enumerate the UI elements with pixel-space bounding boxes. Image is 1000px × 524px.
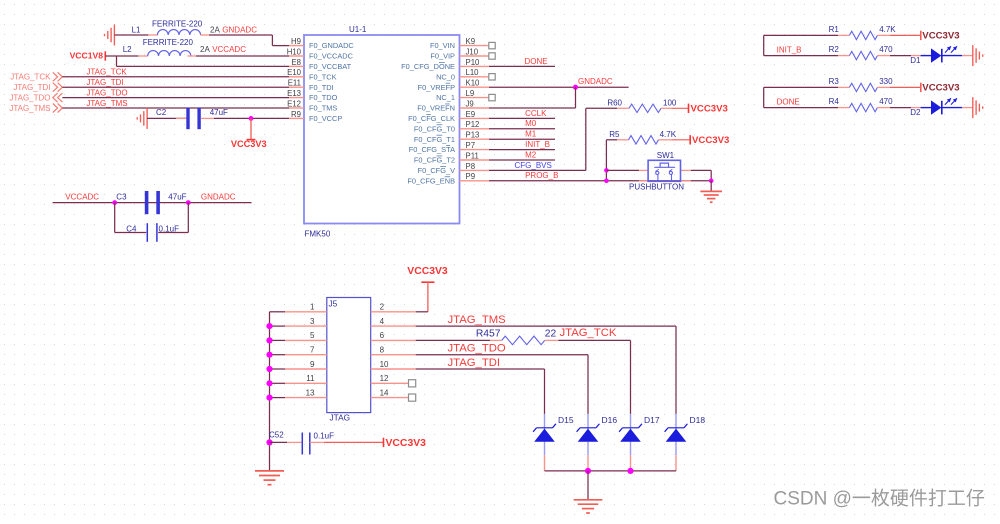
svg-text:JTAG_TDO: JTAG_TDO bbox=[86, 88, 127, 97]
svg-text:4: 4 bbox=[380, 317, 385, 326]
net label VCCADC (L2) bbox=[212, 45, 246, 54]
power port VCC3V3 (R5) bbox=[690, 135, 729, 146]
wire L1 to H9 bbox=[200, 35, 289, 46]
svg-text:DONE: DONE bbox=[525, 57, 548, 66]
svg-text:F0_GNDADC: F0_GNDADC bbox=[309, 41, 354, 50]
wire D1 to ground bbox=[962, 55, 972, 57]
wire VCC1V8 to L2 bbox=[105, 55, 148, 57]
svg-text:P12: P12 bbox=[466, 120, 480, 129]
net label DONE bbox=[525, 57, 548, 66]
ground analog (left of L1) bbox=[105, 25, 115, 46]
wire JTAG_TDI (pin10) bbox=[416, 369, 545, 414]
U1 pin P11 F0_CFG_T2 bbox=[414, 151, 489, 164]
svg-text:C52: C52 bbox=[269, 430, 284, 439]
J5 pin 7 bbox=[285, 346, 327, 355]
svg-text:U1-1: U1-1 bbox=[349, 25, 367, 34]
svg-text:4.7K: 4.7K bbox=[660, 130, 677, 139]
svg-text:4.7K: 4.7K bbox=[879, 25, 896, 34]
net label VCCADC bbox=[65, 193, 99, 202]
U1 pin P12 F0_CFG_T0 bbox=[414, 120, 489, 133]
svg-text:L2: L2 bbox=[123, 45, 132, 54]
svg-text:R60: R60 bbox=[607, 99, 622, 108]
capacitor C2 bbox=[156, 108, 228, 130]
svg-text:FMK50: FMK50 bbox=[305, 230, 331, 239]
svg-text:E12: E12 bbox=[287, 99, 301, 108]
U1 pin E9 F0_CFG_CLK bbox=[408, 110, 489, 123]
node D17 junction bbox=[627, 468, 633, 474]
wire JTAG_TDO (pin8) bbox=[416, 355, 588, 414]
svg-text:F0_VIN: F0_VIN bbox=[430, 41, 455, 50]
wire SW1 top right bbox=[681, 170, 712, 180]
J5 pin 4 bbox=[371, 317, 416, 326]
svg-text:VCC3V3: VCC3V3 bbox=[691, 103, 728, 114]
svg-text:E10: E10 bbox=[287, 68, 302, 77]
U1 refdes bbox=[349, 25, 367, 34]
svg-text:8: 8 bbox=[380, 346, 385, 355]
net label JTAG_TDO bbox=[448, 343, 506, 355]
svg-text:M2: M2 bbox=[525, 150, 537, 159]
svg-text:100: 100 bbox=[663, 99, 677, 108]
svg-text:INIT_B: INIT_B bbox=[777, 46, 802, 55]
U1 pin H10 F0_VCCADC bbox=[287, 47, 354, 60]
wire GNDADC (VREFP) bbox=[489, 86, 629, 88]
no-connect square J10 bbox=[489, 53, 495, 59]
svg-text:6: 6 bbox=[380, 331, 385, 340]
wire SW1 top left bbox=[606, 169, 648, 171]
svg-text:JTAG_TDO: JTAG_TDO bbox=[448, 343, 506, 355]
node SW1-gnd junction bbox=[709, 179, 714, 184]
svg-text:JTAG_TMS: JTAG_TMS bbox=[9, 104, 50, 113]
svg-text:E8: E8 bbox=[291, 58, 301, 67]
wire M0 bbox=[489, 128, 555, 130]
svg-text:GNDADC: GNDADC bbox=[578, 77, 613, 86]
svg-text:F0_CFG_ENB: F0_CFG_ENB bbox=[407, 176, 455, 185]
net label GNDADC (C3) bbox=[201, 193, 236, 202]
port JTAG_TDI bbox=[13, 83, 62, 92]
connector J5 box bbox=[327, 298, 371, 413]
inductor L2 bbox=[123, 38, 211, 56]
svg-text:R2: R2 bbox=[829, 45, 840, 54]
net label JTAG_TDI bbox=[448, 357, 501, 369]
svg-text:10: 10 bbox=[380, 360, 389, 369]
svg-text:GNDADC: GNDADC bbox=[222, 25, 257, 34]
svg-text:L10: L10 bbox=[466, 68, 480, 77]
net label GNDADC (L1) bbox=[222, 25, 257, 34]
svg-text:JTAG: JTAG bbox=[330, 412, 351, 422]
svg-text:F0_VIP: F0_VIP bbox=[430, 52, 455, 61]
svg-text:J10: J10 bbox=[466, 47, 479, 56]
svg-text:NC_1: NC_1 bbox=[436, 93, 455, 102]
svg-text:VCC1V8: VCC1V8 bbox=[70, 51, 104, 61]
svg-text:VCC3V3: VCC3V3 bbox=[231, 139, 267, 149]
svg-text:12: 12 bbox=[380, 374, 389, 383]
svg-text:M0: M0 bbox=[525, 119, 537, 128]
wire R60 vertical bbox=[585, 108, 587, 170]
svg-text:F0_CFG_T0: F0_CFG_T0 bbox=[414, 124, 455, 133]
svg-text:JTAG_TCK: JTAG_TCK bbox=[560, 327, 617, 339]
svg-text:R457: R457 bbox=[476, 329, 501, 340]
U1 pin P13 F0_CFG_T1 bbox=[414, 131, 489, 144]
svg-text:R9: R9 bbox=[291, 110, 301, 119]
resistor R1 bbox=[829, 25, 897, 40]
U1 pin J9 F0_VREFN bbox=[417, 99, 489, 112]
svg-text:2A: 2A bbox=[210, 25, 220, 34]
svg-text:L1: L1 bbox=[132, 25, 141, 34]
svg-text:VCC3V3: VCC3V3 bbox=[922, 31, 959, 42]
svg-text:D16: D16 bbox=[602, 415, 618, 425]
wire D2 to ground bbox=[962, 107, 972, 109]
svg-text:INIT_B: INIT_B bbox=[525, 140, 550, 149]
wire SW1 to ground bbox=[710, 181, 712, 192]
svg-text:JTAG_TCK: JTAG_TCK bbox=[86, 68, 127, 77]
capacitor C52 bbox=[269, 430, 334, 454]
net label JTAG_TDO bbox=[86, 88, 127, 97]
net label JTAG_TMS bbox=[86, 99, 127, 108]
svg-text:VCCADC: VCCADC bbox=[65, 193, 99, 202]
svg-text:VCC3V3: VCC3V3 bbox=[922, 83, 959, 94]
svg-text:D15: D15 bbox=[558, 415, 574, 425]
svg-text:H9: H9 bbox=[291, 37, 301, 46]
no-connect square J5-14 bbox=[409, 394, 416, 401]
svg-text:P9: P9 bbox=[466, 172, 476, 181]
wire L1 left lead bbox=[114, 34, 157, 36]
svg-text:D1: D1 bbox=[910, 56, 921, 65]
wire CFG_BVS bbox=[489, 169, 586, 171]
diode D16 bbox=[577, 414, 618, 471]
wire PROG_B bbox=[489, 180, 711, 182]
net label DONE bbox=[777, 98, 800, 107]
port JTAG_TDO bbox=[9, 93, 62, 102]
svg-text:P7: P7 bbox=[466, 141, 476, 150]
svg-text:CSDN @一枚硬件打工仔: CSDN @一枚硬件打工仔 bbox=[774, 488, 985, 510]
svg-text:C4: C4 bbox=[126, 224, 137, 233]
net label GNDADC bbox=[578, 77, 613, 86]
svg-text:F0_TDI: F0_TDI bbox=[309, 83, 334, 92]
svg-text:JTAG_TDI: JTAG_TDI bbox=[448, 357, 501, 369]
svg-text:47uF: 47uF bbox=[168, 193, 186, 202]
svg-text:JTAG_TMS: JTAG_TMS bbox=[86, 99, 127, 108]
U1 pin E10 F0_TCK bbox=[287, 68, 336, 81]
svg-text:F0_CFG_CLK: F0_CFG_CLK bbox=[408, 114, 455, 123]
wire INIT_B bracket bbox=[764, 35, 838, 55]
svg-text:C2: C2 bbox=[156, 108, 167, 117]
ground analog (D2) bbox=[973, 97, 983, 118]
svg-text:E9: E9 bbox=[466, 110, 476, 119]
svg-text:F0_CFG_STA: F0_CFG_STA bbox=[409, 145, 455, 154]
svg-text:SW1: SW1 bbox=[657, 151, 675, 160]
svg-text:P10: P10 bbox=[466, 58, 481, 67]
LED D1 bbox=[910, 46, 962, 65]
U1 pin P8 F0_CFG_V bbox=[418, 162, 489, 175]
net label JTAG_TDI bbox=[86, 78, 123, 87]
wire R5 right bbox=[659, 139, 691, 141]
svg-text:0.1uF: 0.1uF bbox=[314, 431, 335, 440]
svg-text:13: 13 bbox=[306, 388, 315, 397]
U1 pin P10 F0_CFG_DONE bbox=[401, 58, 489, 71]
wire C52 left bbox=[270, 441, 302, 443]
net label M2 bbox=[525, 150, 537, 159]
U1 part FMK50 bbox=[305, 230, 331, 239]
svg-text:1: 1 bbox=[310, 303, 315, 312]
no-connect square L10 bbox=[489, 74, 495, 80]
node C3 left junction bbox=[112, 200, 117, 205]
J5 pin 14 bbox=[371, 388, 416, 397]
svg-text:F0_CFG_T1: F0_CFG_T1 bbox=[414, 135, 455, 144]
J5 pin 13 bbox=[285, 388, 327, 397]
svg-text:P13: P13 bbox=[466, 131, 480, 140]
svg-text:JTAG_TDI: JTAG_TDI bbox=[86, 78, 123, 87]
svg-text:E11: E11 bbox=[288, 79, 301, 88]
net label CFG_BVS bbox=[515, 161, 552, 170]
svg-text:DONE: DONE bbox=[777, 98, 800, 107]
no-connect square L9 bbox=[489, 94, 495, 100]
wire VREFN to GNDADC bbox=[489, 87, 576, 108]
svg-text:M1: M1 bbox=[525, 130, 537, 139]
U1 pin P7 F0_CFG_STA bbox=[409, 141, 489, 154]
port JTAG_TMS bbox=[9, 104, 62, 113]
J5 refdes bbox=[329, 299, 351, 423]
resistor R457 bbox=[476, 329, 557, 345]
U1 pin E11 F0_TDI bbox=[288, 79, 334, 92]
resistor R5 bbox=[609, 130, 676, 144]
svg-text:PROG_B: PROG_B bbox=[525, 171, 558, 180]
J5 pin 3 bbox=[285, 317, 327, 326]
svg-text:R1: R1 bbox=[829, 25, 840, 34]
node GNDADC junction bbox=[573, 85, 578, 90]
J5 pin 9 bbox=[285, 360, 327, 369]
svg-text:47uF: 47uF bbox=[210, 108, 228, 117]
U1 pin H9 F0_GNDADC bbox=[289, 37, 354, 50]
svg-text:F0_VCCBAT: F0_VCCBAT bbox=[309, 62, 352, 71]
svg-text:P11: P11 bbox=[466, 151, 479, 160]
wire SW1 bottom stubs bbox=[639, 180, 691, 182]
no-connect square J5-12 bbox=[409, 380, 416, 387]
svg-text:F0_TMS: F0_TMS bbox=[309, 104, 337, 113]
wire R457 right bbox=[545, 340, 631, 414]
svg-text:VCC3V3: VCC3V3 bbox=[386, 438, 427, 449]
U1 pin E13 F0_TDO bbox=[287, 89, 337, 102]
wire JTAG_TMS (pin4) bbox=[416, 326, 676, 414]
svg-text:F0_VCCP: F0_VCCP bbox=[309, 114, 342, 123]
svg-text:CCLK: CCLK bbox=[525, 109, 547, 118]
svg-text:C3: C3 bbox=[116, 193, 127, 202]
svg-text:VCC3V3: VCC3V3 bbox=[407, 266, 448, 277]
svg-text:R5: R5 bbox=[609, 130, 620, 139]
node C3 right junction bbox=[186, 200, 191, 205]
svg-text:7: 7 bbox=[310, 346, 315, 355]
power port VCC3V3 (C52) bbox=[384, 438, 427, 450]
resistor R60 bbox=[607, 99, 677, 113]
svg-text:P8: P8 bbox=[466, 162, 476, 171]
wire CCLK bbox=[489, 117, 555, 119]
ground analog (left of C2) bbox=[137, 108, 147, 129]
net label CCLK bbox=[525, 109, 547, 118]
svg-text:F0_TCK: F0_TCK bbox=[309, 72, 337, 81]
J5 pin 1 bbox=[285, 303, 327, 312]
wire R5 vertical bbox=[604, 140, 609, 183]
svg-text:JTAG_TMS: JTAG_TMS bbox=[448, 314, 507, 326]
wire R5 left bbox=[606, 139, 628, 141]
diode D18 bbox=[665, 414, 706, 471]
resistor R2 bbox=[829, 45, 894, 60]
wire J5 left bus bbox=[270, 312, 286, 471]
svg-text:2A: 2A bbox=[200, 45, 210, 54]
net label PROG_B bbox=[525, 171, 558, 180]
wire R60 right bbox=[661, 107, 689, 109]
svg-text:0.1uF: 0.1uF bbox=[159, 224, 180, 233]
svg-text:VCCADC: VCCADC bbox=[212, 45, 246, 54]
svg-text:330: 330 bbox=[879, 77, 893, 86]
svg-text:F0_VREFP: F0_VREFP bbox=[418, 83, 455, 92]
wire JTAG_TCK bbox=[62, 76, 289, 78]
net label JTAG_TMS bbox=[448, 314, 507, 326]
svg-text:JTAG_TDO: JTAG_TDO bbox=[9, 93, 50, 102]
svg-text:E13: E13 bbox=[287, 89, 301, 98]
svg-text:F0_VREFN: F0_VREFN bbox=[417, 104, 455, 113]
ground (J5) bbox=[255, 471, 284, 485]
wire JTAG_TDO bbox=[62, 97, 289, 99]
ground (diodes) bbox=[574, 500, 603, 513]
svg-text:5: 5 bbox=[310, 331, 315, 340]
svg-text:FERRITE-220: FERRITE-220 bbox=[143, 38, 194, 47]
svg-text:F0_CFG_T2: F0_CFG_T2 bbox=[414, 156, 455, 165]
J5 bus junctions bbox=[266, 323, 272, 446]
net label INIT_B bbox=[525, 140, 550, 149]
ground analog (D1) bbox=[973, 45, 983, 66]
wire DONE bracket bbox=[764, 87, 838, 107]
net label INIT_B bbox=[777, 46, 802, 55]
svg-text:L9: L9 bbox=[466, 89, 475, 98]
U1 pin E8 F0_VCCBAT bbox=[289, 58, 352, 71]
svg-text:F0_VCCADC: F0_VCCADC bbox=[309, 52, 354, 61]
net label M0 bbox=[525, 119, 537, 128]
svg-text:CFG_BVS: CFG_BVS bbox=[515, 161, 552, 170]
svg-text:GNDADC: GNDADC bbox=[201, 193, 236, 202]
wire DONE bbox=[489, 65, 555, 67]
diode D15 bbox=[533, 414, 574, 471]
svg-text:R4: R4 bbox=[829, 97, 840, 106]
U1 pin J10 F0_VIP bbox=[430, 47, 489, 60]
svg-text:22: 22 bbox=[545, 329, 557, 340]
port JTAG_TCK bbox=[10, 72, 62, 81]
net label JTAG_TCK bbox=[560, 327, 617, 339]
J5 pin 6 bbox=[371, 331, 416, 340]
wire R4 to D2 bbox=[877, 107, 920, 109]
svg-text:NC_0: NC_0 bbox=[436, 72, 455, 81]
wire JTAG_TDI bbox=[62, 86, 289, 88]
capacitor C4 bbox=[126, 223, 179, 242]
power port VCC3V3 (R3) bbox=[921, 83, 960, 94]
svg-text:K10: K10 bbox=[466, 79, 481, 88]
wire C52 right bbox=[310, 441, 384, 443]
svg-text:VCC3V3: VCC3V3 bbox=[692, 135, 729, 146]
capacitor C3 bbox=[116, 191, 186, 214]
svg-text:F0_TDO: F0_TDO bbox=[309, 93, 338, 102]
wire M1 bbox=[489, 138, 555, 140]
J5 pin 5 bbox=[285, 331, 327, 340]
wire INIT_B bbox=[489, 149, 555, 151]
svg-text:H10: H10 bbox=[287, 47, 302, 56]
svg-text:F0_CFG_V: F0_CFG_V bbox=[418, 166, 455, 175]
wire JTAG_TMS bbox=[62, 107, 289, 109]
watermark bbox=[774, 488, 985, 510]
power port VCC3V3 (C2) bbox=[231, 118, 267, 149]
svg-text:9: 9 bbox=[310, 360, 315, 369]
U1 pin R9 F0_VCCP bbox=[289, 110, 342, 123]
diode D17 bbox=[619, 414, 660, 471]
J5 pin 12 bbox=[371, 374, 416, 383]
svg-text:PUSHBUTTON: PUSHBUTTON bbox=[629, 183, 684, 192]
svg-text:F0_CFG_DONE: F0_CFG_DONE bbox=[401, 62, 455, 71]
wire R457 left bbox=[416, 339, 502, 341]
LED D2 bbox=[910, 98, 962, 117]
power port VCC3V3 (R60) bbox=[689, 103, 728, 114]
power port VCC3V3 (J5 pin2) bbox=[407, 266, 448, 312]
wire R1 to VCC3V3 bbox=[877, 34, 920, 36]
wire C4 loop bbox=[115, 203, 189, 233]
resistor R4 bbox=[829, 97, 894, 112]
svg-text:14: 14 bbox=[380, 388, 389, 397]
svg-text:FERRITE-220: FERRITE-220 bbox=[152, 19, 203, 28]
svg-text:D18: D18 bbox=[690, 415, 706, 425]
wire R60 left bbox=[586, 107, 629, 109]
net label M1 bbox=[525, 130, 537, 139]
svg-text:J9: J9 bbox=[466, 99, 474, 108]
wire M2 bbox=[489, 159, 555, 161]
wire J5 pin2 to VCC3V3 bbox=[416, 311, 428, 313]
switch SW1 bbox=[629, 151, 684, 192]
U1 pin L10 NC_0 bbox=[436, 68, 489, 81]
net label JTAG_TCK bbox=[86, 68, 127, 77]
svg-text:J5: J5 bbox=[329, 299, 338, 309]
wire C2 left bbox=[147, 117, 186, 119]
wire R3 to VCC3V3 bbox=[877, 86, 920, 88]
wire C2 to R9 bbox=[201, 116, 289, 121]
svg-text:2: 2 bbox=[380, 303, 385, 312]
inductor L1 bbox=[132, 19, 221, 35]
wire R2 to D1 bbox=[877, 55, 920, 57]
wire bus to ground bbox=[587, 471, 589, 500]
svg-text:D17: D17 bbox=[644, 415, 660, 425]
ground (SW1) bbox=[700, 191, 722, 202]
svg-text:D2: D2 bbox=[910, 108, 921, 117]
J5 pin 10 bbox=[371, 360, 416, 369]
no-connect square K9 bbox=[489, 42, 495, 48]
wire diode bus bbox=[545, 470, 677, 472]
power port VCC1V8 bbox=[70, 51, 106, 61]
U1 pin E12 F0_TMS bbox=[287, 99, 337, 112]
resistor R3 bbox=[829, 77, 894, 92]
svg-text:JTAG_TCK: JTAG_TCK bbox=[10, 73, 51, 82]
svg-text:R3: R3 bbox=[829, 77, 840, 86]
U1 pin P9 F0_CFG_ENB bbox=[407, 172, 489, 185]
U1 pin K9 F0_VIN bbox=[430, 37, 489, 50]
J5 pin 11 bbox=[285, 374, 327, 383]
svg-text:3: 3 bbox=[310, 317, 315, 326]
J5 pin 8 bbox=[371, 346, 416, 355]
power port VCC3V3 (R1) bbox=[921, 31, 960, 42]
node D16 junction bbox=[585, 468, 591, 474]
U1 pin K10 F0_VREFP bbox=[418, 79, 489, 92]
wire VCCADC-GNDADC bbox=[53, 202, 252, 204]
wire VCC1V8 branch to E8 bbox=[117, 56, 290, 66]
op-amp U1 box bbox=[304, 35, 460, 224]
svg-text:K9: K9 bbox=[466, 37, 476, 46]
svg-text:11: 11 bbox=[306, 374, 315, 383]
J5 pin 2 bbox=[371, 303, 416, 312]
U1 pin L9 NC_1 bbox=[436, 89, 489, 102]
svg-text:JTAG_TDI: JTAG_TDI bbox=[13, 83, 50, 92]
